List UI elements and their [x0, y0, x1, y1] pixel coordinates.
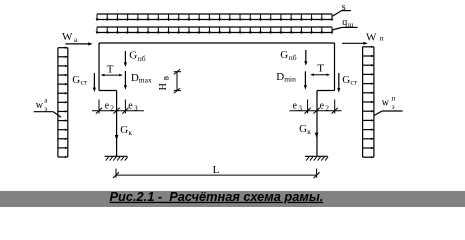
svg-text:п: п	[380, 33, 384, 42]
svg-text:e: e	[293, 101, 298, 112]
svg-text:а: а	[44, 97, 48, 105]
svg-text:э: э	[392, 103, 395, 111]
svg-text:T: T	[317, 63, 324, 75]
svg-text:T: T	[107, 64, 114, 76]
svg-text:W: W	[62, 31, 73, 43]
svg-text:Н: Н	[158, 83, 169, 90]
svg-text:w: w	[36, 100, 44, 111]
svg-text:2: 2	[325, 104, 329, 113]
svg-text:min: min	[284, 74, 296, 83]
svg-text:пб: пб	[289, 53, 297, 62]
svg-text:ст: ст	[81, 77, 88, 86]
svg-text:G: G	[342, 74, 350, 86]
svg-text:в: в	[161, 76, 171, 80]
svg-text:max: max	[139, 76, 152, 85]
svg-text:пб: пб	[138, 54, 146, 63]
svg-text:G: G	[120, 124, 128, 136]
svg-text:а: а	[74, 35, 78, 44]
svg-text:G: G	[129, 50, 137, 62]
svg-text:e: e	[105, 101, 110, 112]
svg-text:ш: ш	[348, 21, 354, 29]
svg-text:e: e	[128, 101, 133, 112]
svg-text:D: D	[276, 71, 284, 83]
svg-text:2: 2	[110, 104, 114, 113]
svg-text:G: G	[299, 123, 307, 135]
svg-text:D: D	[131, 72, 139, 84]
svg-text:3: 3	[134, 104, 138, 113]
svg-text:п: п	[392, 94, 396, 102]
svg-text:W: W	[366, 31, 377, 43]
svg-text:к: к	[128, 128, 132, 137]
svg-text:s: s	[342, 2, 346, 13]
svg-text:G: G	[72, 74, 80, 86]
svg-text:3: 3	[298, 104, 302, 113]
svg-text:ст: ст	[350, 77, 357, 86]
svg-text:Рис.2.1 - Расчётная схема рам: Рис.2.1 - Расчётная схема рамы.	[110, 189, 324, 204]
svg-text:L: L	[213, 164, 220, 176]
svg-text:e: e	[320, 101, 325, 112]
svg-text:G: G	[280, 49, 288, 61]
svg-text:w: w	[382, 98, 390, 109]
svg-text:q: q	[342, 17, 347, 28]
svg-text:э: э	[44, 105, 47, 113]
svg-text:к: к	[307, 127, 311, 136]
